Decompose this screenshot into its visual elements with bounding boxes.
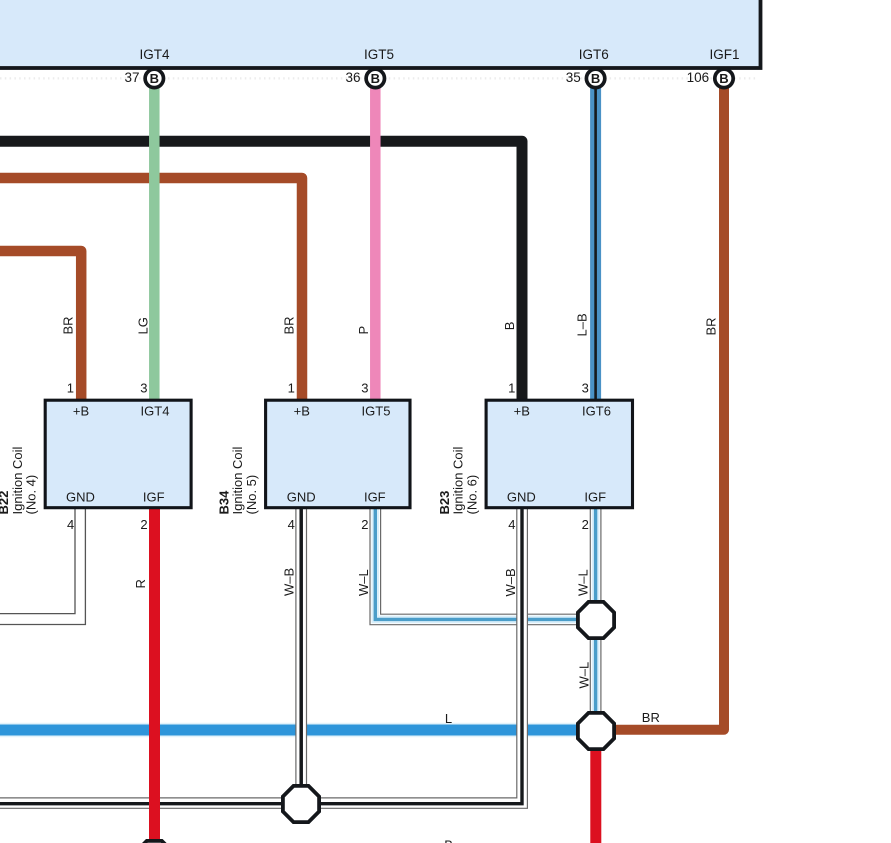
- svg-text:GND: GND: [66, 489, 95, 504]
- svg-text:106: 106: [687, 70, 710, 85]
- svg-text:B23: B23: [437, 491, 452, 515]
- svg-text:+B: +B: [73, 404, 89, 419]
- svg-text:36: 36: [345, 70, 360, 85]
- svg-text:3: 3: [140, 380, 147, 395]
- svg-text:(No. 5): (No. 5): [244, 475, 259, 515]
- B23 side label: [437, 446, 480, 514]
- svg-text:B34: B34: [216, 490, 231, 515]
- svg-text:2: 2: [361, 517, 368, 532]
- junction J4 (octagon, clipped at bottom edge): [136, 841, 172, 843]
- wire W-L between junction J1 and junction J2: [590, 634, 601, 717]
- wire R (red) from junction J2 down: [590, 733, 601, 843]
- svg-text:4: 4: [67, 517, 74, 532]
- svg-text:IGT4: IGT4: [141, 404, 170, 419]
- dashed separator line under ECM: [0, 77, 757, 79]
- svg-text:37: 37: [124, 70, 139, 85]
- wire W from B22 GND pin 4 (white, turns left): [0, 509, 85, 625]
- svg-text:BR: BR: [642, 710, 660, 725]
- svg-text:2: 2: [140, 517, 147, 532]
- svg-text:W–L: W–L: [356, 569, 371, 596]
- svg-text:2: 2: [582, 517, 589, 532]
- svg-text:IGF: IGF: [584, 489, 606, 504]
- wire W-L from B34 IGF pin 2, turning right to junction J1: [370, 509, 582, 625]
- wire W-B from B23 GND pin 4, turning left into horizontal ground run: [0, 509, 527, 808]
- svg-text:W–B: W–B: [281, 568, 296, 596]
- svg-text:(No. 6): (No. 6): [464, 475, 479, 515]
- wire BR (brown) to B34 +B pin 1: [0, 178, 302, 402]
- svg-text:B: B: [444, 837, 453, 843]
- svg-text:B: B: [150, 71, 159, 86]
- svg-text:IGT6: IGT6: [579, 47, 609, 62]
- junction J1 (octagon): [578, 602, 614, 638]
- svg-text:IGT4: IGT4: [139, 47, 169, 62]
- svg-text:IGF1: IGF1: [709, 47, 739, 62]
- svg-text:1: 1: [508, 380, 515, 395]
- wire B (black) from ECM area to B23 +B pin 1: [0, 141, 522, 402]
- svg-text:4: 4: [288, 517, 295, 532]
- svg-text:3: 3: [361, 380, 368, 395]
- wire LG from ECM pin 37 to B22 IGT4 pin 3: [149, 87, 160, 402]
- svg-text:W–L: W–L: [576, 662, 591, 689]
- wire BR from ECM pin 106 down to junction J2: [614, 87, 724, 730]
- B34 side label: [216, 446, 259, 514]
- svg-text:R: R: [133, 579, 148, 588]
- svg-text:W–L: W–L: [576, 569, 591, 596]
- svg-text:IGF: IGF: [143, 489, 165, 504]
- svg-text:IGT5: IGT5: [364, 47, 394, 62]
- svg-text:BR: BR: [703, 317, 718, 335]
- ignition coil B23 box: [486, 400, 632, 508]
- svg-text:B: B: [371, 71, 380, 86]
- ECM connector 35 (B): [566, 69, 605, 87]
- svg-text:1: 1: [67, 380, 74, 395]
- svg-text:BR: BR: [61, 316, 76, 334]
- svg-text:IGT5: IGT5: [362, 404, 391, 419]
- ECM connector 37 (B): [124, 69, 163, 87]
- ECM connector 36 (B): [345, 69, 384, 87]
- junction J2 (octagon): [578, 713, 614, 749]
- svg-text:35: 35: [566, 70, 581, 85]
- ignition coil B22 box: [45, 400, 191, 508]
- svg-text:1: 1: [288, 380, 295, 395]
- svg-text:W–B: W–B: [503, 568, 518, 596]
- B22 side label: [0, 446, 39, 514]
- wire W-B from B34 GND pin 4 down to junction J3: [296, 509, 307, 790]
- ignition coil B34 box: [266, 400, 410, 508]
- ECM connector 106 (B): [687, 69, 734, 87]
- svg-text:B: B: [591, 71, 600, 86]
- svg-text:BR: BR: [282, 316, 297, 334]
- wire P from ECM pin 36 to B34 IGT5 pin 3: [370, 87, 381, 402]
- svg-text:4: 4: [508, 517, 515, 532]
- svg-text:3: 3: [582, 380, 589, 395]
- wire L-B from ECM pin 35 to B23 IGT6 pin 3: [590, 87, 601, 402]
- svg-text:B: B: [719, 71, 728, 86]
- svg-text:+B: +B: [294, 404, 310, 419]
- svg-text:L–B: L–B: [575, 313, 590, 336]
- svg-text:LG: LG: [136, 317, 151, 334]
- wire L (blue) horizontal to junction J2: [0, 723, 578, 738]
- svg-text:GND: GND: [287, 489, 316, 504]
- wire W-L from B23 IGF pin 2 down to junction J1: [590, 509, 601, 606]
- svg-text:(No. 4): (No. 4): [24, 475, 39, 515]
- svg-text:B: B: [502, 322, 517, 331]
- junction J3 (octagon): [283, 786, 319, 822]
- wire R (red) from B22 IGF pin 2 down to junction J4: [149, 509, 160, 843]
- svg-text:IGT6: IGT6: [582, 404, 611, 419]
- svg-text:IGF: IGF: [364, 489, 386, 504]
- svg-text:P: P: [356, 326, 371, 335]
- ECM connector block (top band): [0, 0, 761, 68]
- svg-text:GND: GND: [507, 489, 536, 504]
- svg-text:+B: +B: [514, 404, 530, 419]
- svg-text:L: L: [445, 711, 452, 726]
- wire BR (brown) to B22 +B pin 1: [0, 251, 81, 402]
